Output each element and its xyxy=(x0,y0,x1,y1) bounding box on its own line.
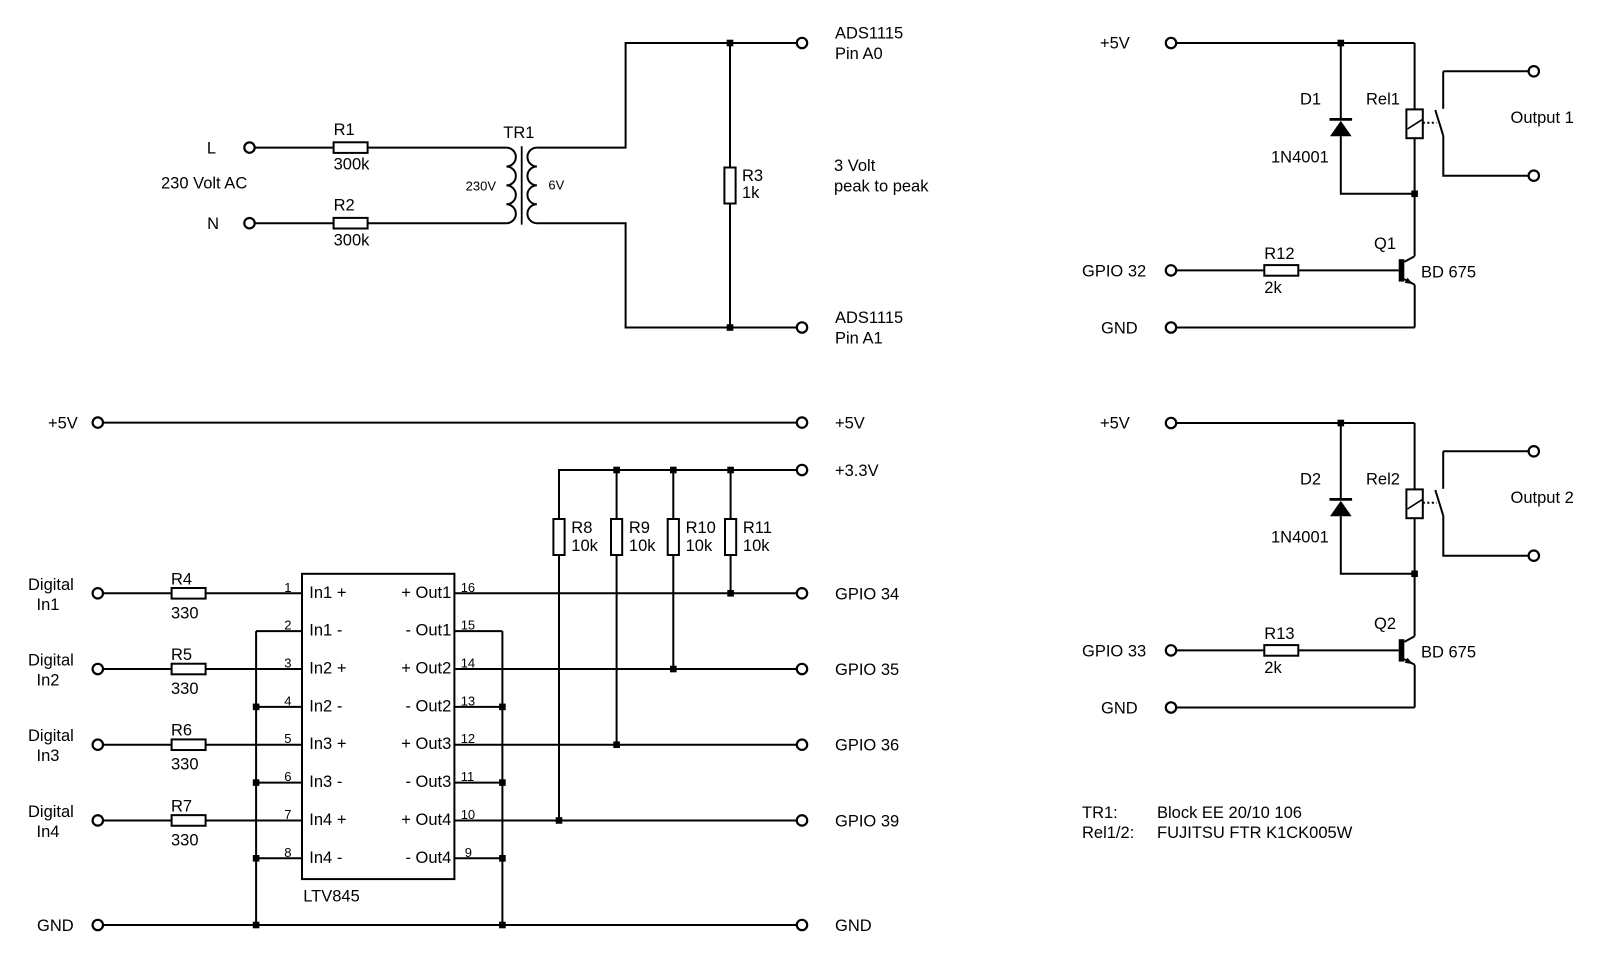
junction bus pin 6 xyxy=(253,779,260,786)
svg-text:10k: 10k xyxy=(686,537,713,555)
wire R5 to U1 pin 3 xyxy=(206,668,302,670)
svg-text:GPIO 33: GPIO 33 xyxy=(1082,642,1146,660)
wire U1 pin 16 to GPIO 34 xyxy=(454,592,796,594)
svg-text:GPIO 34: GPIO 34 xyxy=(835,585,899,603)
wire D1 cathode lead xyxy=(1340,43,1342,119)
svg-text:FUJITSU FTR K1CK005W: FUJITSU FTR K1CK005W xyxy=(1157,824,1353,842)
svg-text:1k: 1k xyxy=(742,184,760,202)
node GPIO 39 xyxy=(797,815,807,825)
junction bus pin 11 xyxy=(499,779,506,786)
junction bus pin 4 xyxy=(253,704,260,711)
svg-text:D2: D2 xyxy=(1300,470,1321,488)
svg-text:TR1: TR1 xyxy=(503,124,534,142)
svg-text:Digital: Digital xyxy=(28,803,74,821)
relay contact Rel1 xyxy=(1423,71,1444,136)
svg-text:In3: In3 xyxy=(37,747,60,765)
wire GPIO 33 to R13 xyxy=(1177,649,1265,651)
wire R10 bottom lead xyxy=(672,554,674,669)
svg-text:R7: R7 xyxy=(171,797,192,815)
wire U1 pin 11 stub xyxy=(454,782,502,784)
wire R3 bottom lead xyxy=(729,203,731,328)
wire U1 pin 10 to GPIO 39 xyxy=(454,819,796,821)
relay contact Rel2 xyxy=(1423,451,1444,516)
wire R6 to U1 pin 5 xyxy=(206,744,302,746)
svg-text:R13: R13 xyxy=(1264,625,1294,643)
svg-text:TR1:: TR1: xyxy=(1082,804,1118,822)
wire relay bottom to collector xyxy=(1414,518,1416,636)
wire R1 to TR1 primary xyxy=(368,147,507,149)
wire U1 pin 12 to GPIO 36 xyxy=(454,744,796,746)
wire +5V to relay xyxy=(1177,422,1415,424)
wire R11 bottom lead xyxy=(730,554,732,593)
svg-text:In1 -: In1 - xyxy=(309,622,342,640)
svg-text:GPIO 35: GPIO 35 xyxy=(835,661,899,679)
svg-text:R12: R12 xyxy=(1264,245,1294,263)
node GPIO 35 xyxy=(797,664,807,674)
wire R11 top lead xyxy=(730,470,732,520)
junction R9 to output row xyxy=(613,741,620,748)
svg-text:In3 +: In3 + xyxy=(309,735,346,753)
svg-text:10k: 10k xyxy=(571,537,598,555)
svg-text:9: 9 xyxy=(465,845,472,860)
svg-text:Pin A1: Pin A1 xyxy=(835,330,883,348)
svg-text:R2: R2 xyxy=(334,197,355,215)
wire Digital In1 to R4 xyxy=(104,592,172,594)
svg-text:10k: 10k xyxy=(629,537,656,555)
svg-text:10: 10 xyxy=(461,807,475,822)
wire R3 top lead xyxy=(729,43,731,168)
wire Digital In3 to R6 xyxy=(104,744,172,746)
wire R7 to U1 pin 7 xyxy=(206,819,302,821)
svg-text:14: 14 xyxy=(461,656,475,671)
svg-text:Rel2: Rel2 xyxy=(1366,470,1400,488)
svg-text:GPIO 32: GPIO 32 xyxy=(1082,262,1146,280)
svg-text:- Out4: - Out4 xyxy=(405,849,451,867)
resistor R12 xyxy=(1264,265,1298,276)
junction R3 top xyxy=(727,40,734,47)
svg-text:ADS1115: ADS1115 xyxy=(835,25,903,43)
wire U1 pin 15 stub xyxy=(454,630,502,632)
svg-text:15: 15 xyxy=(461,618,475,633)
resistor R11 xyxy=(725,519,736,555)
wire U1 pin 8 stub xyxy=(256,857,302,859)
junction +3.3V rail at R11 xyxy=(727,467,734,474)
transformer TR1 xyxy=(506,146,537,224)
wire R12 to Q1 base xyxy=(1298,269,1398,271)
wire R9 top lead xyxy=(616,470,618,520)
svg-text:In3 -: In3 - xyxy=(309,773,342,791)
svg-text:2k: 2k xyxy=(1264,659,1282,677)
svg-text:In1: In1 xyxy=(37,596,60,614)
svg-text:230V: 230V xyxy=(466,179,497,194)
svg-text:Digital: Digital xyxy=(28,652,74,670)
svg-text:Output 1: Output 1 xyxy=(1511,109,1574,127)
svg-text:In2 +: In2 + xyxy=(309,660,346,678)
svg-text:3: 3 xyxy=(284,656,291,671)
svg-text:R1: R1 xyxy=(334,121,355,139)
junction collector node xyxy=(1411,191,1418,198)
junction R8 to output row xyxy=(556,817,563,824)
svg-text:In2 -: In2 - xyxy=(309,697,342,715)
diode D2 1N4001 xyxy=(1330,499,1353,516)
wire U1 pin 14 to GPIO 35 xyxy=(454,668,796,670)
svg-text:Digital: Digital xyxy=(28,576,74,594)
svg-text:N: N xyxy=(207,215,219,233)
svg-text:Q1: Q1 xyxy=(1374,235,1396,253)
resistor R9 xyxy=(611,519,622,555)
svg-text:GND: GND xyxy=(1101,700,1138,718)
svg-text:8: 8 xyxy=(284,845,291,860)
svg-text:R5: R5 xyxy=(171,646,192,664)
resistor R1 xyxy=(334,142,368,153)
wire contact to Output 1 top xyxy=(1443,70,1528,72)
svg-text:330: 330 xyxy=(171,756,199,774)
optocoupler U1 LTV845 xyxy=(302,574,454,879)
junction +5V at D2 xyxy=(1338,420,1345,427)
wire U1 pin 4 stub xyxy=(256,706,302,708)
resistor R4 xyxy=(172,588,206,599)
svg-text:In4 +: In4 + xyxy=(309,811,346,829)
wire N to R2 xyxy=(255,222,333,224)
resistor R10 xyxy=(668,519,679,555)
node Output 1 bottom xyxy=(1529,171,1539,181)
svg-text:5: 5 xyxy=(284,731,291,746)
node GPIO 36 xyxy=(797,740,807,750)
svg-text:3 Volt: 3 Volt xyxy=(834,157,876,175)
wire R9 bottom lead xyxy=(616,554,618,744)
wire U1 pin 2 stub xyxy=(256,630,302,632)
svg-text:13: 13 xyxy=(461,693,475,708)
svg-text:R9: R9 xyxy=(629,519,650,537)
wire contact arm to Output 1 bottom xyxy=(1443,136,1528,176)
svg-text:L: L xyxy=(207,140,216,158)
svg-text:LTV845: LTV845 xyxy=(303,888,360,906)
svg-text:+5V: +5V xyxy=(1100,35,1130,53)
svg-text:Pin A0: Pin A0 xyxy=(835,45,883,63)
svg-text:R4: R4 xyxy=(171,570,192,588)
svg-text:R10: R10 xyxy=(686,519,716,537)
svg-text:+3.3V: +3.3V xyxy=(835,462,879,480)
wire U1 pin 6 stub xyxy=(256,782,302,784)
wire relay top lead xyxy=(1414,43,1416,109)
junction +5V at D1 xyxy=(1338,40,1345,47)
junction input bus to GND xyxy=(253,922,260,929)
wire TR1 secondary top to Pin A0 xyxy=(537,43,797,148)
junction bus pin 13 xyxy=(499,704,506,711)
wire D2 anode to collector node xyxy=(1341,516,1415,574)
svg-text:In1 +: In1 + xyxy=(309,584,346,602)
wire D1 anode to collector node xyxy=(1341,136,1415,194)
resistor R5 xyxy=(172,664,206,675)
svg-text:Q2: Q2 xyxy=(1374,615,1396,633)
svg-text:+5V: +5V xyxy=(48,415,78,433)
svg-text:R6: R6 xyxy=(171,722,192,740)
wire U1 pin 13 stub xyxy=(454,706,502,708)
junction bus pin 8 xyxy=(253,855,260,862)
svg-text:GND: GND xyxy=(37,917,74,935)
resistor R13 xyxy=(1264,645,1298,656)
svg-text:- Out2: - Out2 xyxy=(405,697,451,715)
svg-text:GPIO 36: GPIO 36 xyxy=(835,737,899,755)
wire +5V rail xyxy=(104,422,797,424)
resistor R2 xyxy=(334,218,368,229)
svg-text:ADS1115: ADS1115 xyxy=(835,309,903,327)
svg-text:Block EE 20/10 106: Block EE 20/10 106 xyxy=(1157,804,1302,822)
svg-text:6V: 6V xyxy=(548,178,564,193)
wire L to R1 xyxy=(255,147,333,149)
relay coil Rel1 xyxy=(1406,109,1422,138)
svg-text:Rel1/2:: Rel1/2: xyxy=(1082,824,1134,842)
wire GND rail xyxy=(104,924,797,926)
svg-text:+5V: +5V xyxy=(835,415,865,433)
svg-text:- Out1: - Out1 xyxy=(405,622,451,640)
wire GPIO 32 to R12 xyxy=(1177,269,1265,271)
junction R10 to output row xyxy=(670,666,677,673)
node +3.3V xyxy=(797,465,807,475)
svg-text:330: 330 xyxy=(171,680,199,698)
transistor Q1 BD 675 xyxy=(1399,256,1415,327)
svg-text:11: 11 xyxy=(461,769,475,784)
svg-text:+ Out2: + Out2 xyxy=(401,660,451,678)
svg-text:D1: D1 xyxy=(1300,90,1321,108)
wire +5V to relay xyxy=(1177,42,1415,44)
svg-text:330: 330 xyxy=(171,604,199,622)
wire R2 to TR1 primary xyxy=(368,222,507,224)
svg-text:2k: 2k xyxy=(1264,279,1282,297)
wire contact arm to Output 2 bottom xyxy=(1443,516,1528,556)
svg-text:GPIO 39: GPIO 39 xyxy=(835,812,899,830)
svg-text:peak to peak: peak to peak xyxy=(834,177,929,195)
wire relay bottom to collector xyxy=(1414,138,1416,256)
node Output 2 bottom xyxy=(1529,551,1539,561)
svg-text:GND: GND xyxy=(1101,320,1138,338)
wire GND to Q2 emitter xyxy=(1177,707,1415,709)
wire Digital In2 to R5 xyxy=(104,668,172,670)
svg-text:330: 330 xyxy=(171,831,199,849)
svg-text:12: 12 xyxy=(461,731,475,746)
wire input common bus xyxy=(255,631,257,925)
junction output bus to GND xyxy=(499,922,506,929)
svg-text:+ Out1: + Out1 xyxy=(401,584,451,602)
wire +3.3V rail xyxy=(559,470,797,520)
svg-text:BD 675: BD 675 xyxy=(1421,643,1476,661)
node GPIO 34 xyxy=(797,588,807,598)
node Output 2 top xyxy=(1529,446,1539,456)
svg-text:+ Out3: + Out3 xyxy=(401,735,451,753)
node GND right xyxy=(797,920,807,930)
wire TR1 secondary bottom to Pin A1 xyxy=(537,223,797,327)
wire R4 to U1 pin 1 xyxy=(206,592,302,594)
svg-text:+ Out4: + Out4 xyxy=(401,811,451,829)
wire U1 pin 9 stub xyxy=(454,857,502,859)
diode D1 1N4001 xyxy=(1330,119,1353,136)
svg-text:6: 6 xyxy=(284,769,291,784)
svg-text:R11: R11 xyxy=(743,519,772,537)
svg-text:230 Volt AC: 230 Volt AC xyxy=(161,175,247,193)
svg-text:R8: R8 xyxy=(571,519,592,537)
svg-text:+5V: +5V xyxy=(1100,415,1130,433)
svg-text:7: 7 xyxy=(284,807,291,822)
svg-text:10k: 10k xyxy=(743,537,770,555)
junction R3 bottom xyxy=(727,324,734,331)
wire R8 bottom lead xyxy=(558,554,560,820)
wire relay top lead xyxy=(1414,423,1416,489)
junction bus pin 9 xyxy=(499,855,506,862)
wire GND to Q1 emitter xyxy=(1177,327,1415,329)
svg-text:2: 2 xyxy=(284,618,291,633)
svg-text:GND: GND xyxy=(835,917,872,935)
wire D2 cathode lead xyxy=(1340,423,1342,499)
svg-text:4: 4 xyxy=(284,693,291,708)
svg-text:1N4001: 1N4001 xyxy=(1271,148,1329,166)
svg-text:1N4001: 1N4001 xyxy=(1271,528,1329,546)
junction +3.3V rail at R10 xyxy=(670,467,677,474)
resistor R7 xyxy=(172,815,206,826)
relay coil Rel2 xyxy=(1406,489,1422,518)
junction +3.3V rail at R9 xyxy=(613,467,620,474)
svg-text:- Out3: - Out3 xyxy=(405,773,451,791)
svg-text:In4: In4 xyxy=(37,823,60,841)
svg-text:Output 2: Output 2 xyxy=(1511,489,1574,507)
resistor R3 xyxy=(724,168,735,204)
node ADS1115 Pin A1 xyxy=(797,322,807,332)
svg-text:1: 1 xyxy=(284,580,291,595)
node Output 1 top xyxy=(1529,66,1539,76)
wire Digital In4 to R7 xyxy=(104,819,172,821)
node +5V right xyxy=(797,417,807,427)
svg-text:R3: R3 xyxy=(742,167,763,185)
svg-text:Rel1: Rel1 xyxy=(1366,90,1400,108)
wire contact to Output 2 top xyxy=(1443,450,1528,452)
wire R13 to Q2 base xyxy=(1298,649,1398,651)
wire R10 top lead xyxy=(672,470,674,520)
svg-text:300k: 300k xyxy=(334,231,371,249)
svg-text:BD 675: BD 675 xyxy=(1421,263,1476,281)
node ADS1115 Pin A0 xyxy=(797,38,807,48)
svg-text:In4 -: In4 - xyxy=(309,849,342,867)
junction R11 to output row xyxy=(727,590,734,597)
junction collector node xyxy=(1411,571,1418,578)
svg-text:16: 16 xyxy=(461,580,475,595)
wire output common bus xyxy=(501,631,503,925)
transistor Q2 BD 675 xyxy=(1399,636,1415,707)
svg-text:300k: 300k xyxy=(334,156,371,174)
resistor R8 xyxy=(553,519,564,555)
svg-text:In2: In2 xyxy=(37,672,60,690)
resistor R6 xyxy=(172,739,206,750)
svg-text:Digital: Digital xyxy=(28,727,74,745)
